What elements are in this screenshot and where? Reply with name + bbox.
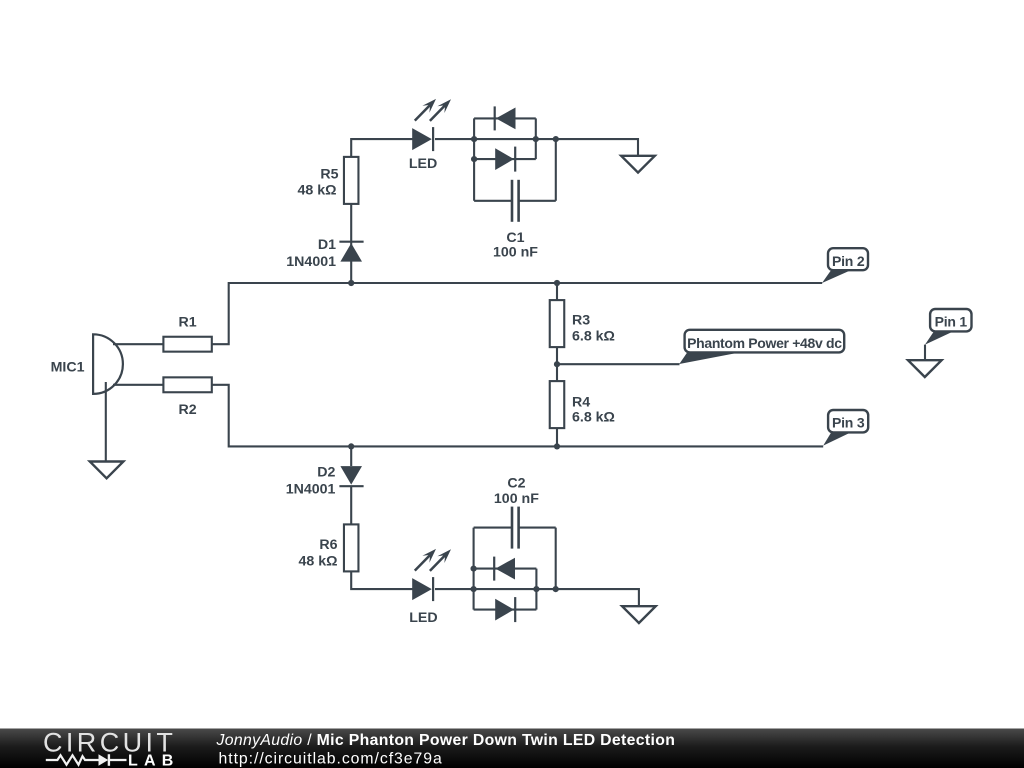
- svg-text:http://circuitlab.com/cf3e79a: http://circuitlab.com/cf3e79a: [219, 751, 443, 768]
- svg-text:Phantom Power +48v dc: Phantom Power +48v dc: [687, 335, 842, 351]
- svg-text:48 kΩ: 48 kΩ: [298, 182, 337, 198]
- svg-text:LAB: LAB: [128, 753, 179, 768]
- svg-text:Pin 1: Pin 1: [935, 314, 968, 330]
- svg-text:Pin 2: Pin 2: [832, 253, 865, 269]
- svg-text:R3: R3: [572, 313, 590, 329]
- svg-text:1N4001: 1N4001: [286, 254, 336, 270]
- svg-text:6.8 kΩ: 6.8 kΩ: [572, 329, 615, 345]
- svg-text:R2: R2: [179, 402, 197, 418]
- svg-text:D1: D1: [318, 237, 336, 253]
- svg-text:6.8 kΩ: 6.8 kΩ: [572, 409, 615, 425]
- svg-text:100 nF: 100 nF: [494, 491, 539, 507]
- svg-text:100 nF: 100 nF: [493, 244, 538, 260]
- svg-text:LED: LED: [409, 156, 437, 172]
- svg-text:1N4001: 1N4001: [286, 482, 336, 498]
- svg-text:MIC1: MIC1: [51, 359, 85, 375]
- svg-text:LED: LED: [409, 610, 437, 626]
- svg-text:48 kΩ: 48 kΩ: [299, 554, 338, 570]
- svg-text:D2: D2: [317, 465, 335, 481]
- svg-text:C2: C2: [507, 476, 525, 492]
- svg-text:Pin 3: Pin 3: [832, 415, 865, 431]
- svg-text:R5: R5: [320, 167, 338, 183]
- svg-text:R6: R6: [319, 537, 337, 553]
- svg-text:R4: R4: [572, 394, 590, 410]
- svg-text:R1: R1: [179, 315, 197, 331]
- svg-text:JonnyAudio / Mic Phanton Power: JonnyAudio / Mic Phanton Power Down Twin…: [216, 732, 676, 749]
